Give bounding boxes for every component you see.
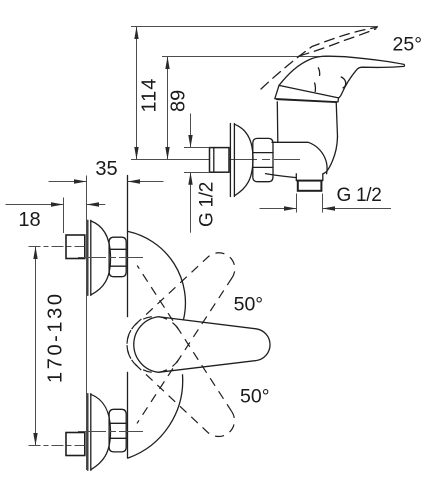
body edge line / 35 extension [127, 176, 129, 459]
top connection centerline [78, 257, 143, 259]
label 50 deg lower [240, 386, 270, 408]
outlet thread G1/2 [298, 181, 322, 191]
body silhouette lower arc front view [128, 375, 183, 458]
centerline wall connection side view [131, 159, 300, 161]
lever handle side view [279, 56, 404, 98]
handle solid teardrop front view [134, 317, 270, 373]
dashed handle position -50deg (lower) [116, 305, 251, 451]
label 114 [139, 78, 161, 113]
extension line top (tip of raised lever, y=26) [131, 26, 378, 28]
label 18 [18, 209, 40, 231]
faucet body side view [266, 102, 338, 178]
dashed raised lever upper silhouette [261, 27, 377, 89]
label 170-130 rotated [45, 291, 67, 383]
bottom hex nut front view [109, 409, 126, 452]
dashed handle position +50deg (upper) [116, 238, 251, 384]
hex nut side view [253, 138, 273, 181]
dimension 170-130 [33, 247, 37, 446]
dashed swing line of upper handle position [137, 278, 232, 424]
svg-text:18: 18 [18, 209, 40, 231]
svg-text:25°: 25° [393, 34, 423, 56]
bottom stub centerline [29, 445, 85, 447]
svg-text:114: 114 [139, 78, 161, 113]
top stub centerline [29, 246, 85, 248]
outlet collar [296, 174, 323, 181]
lever side bump [341, 77, 346, 88]
svg-text:170-130: 170-130 [45, 291, 67, 383]
outlet dimension G 1/2 [260, 194, 392, 213]
svg-text:89: 89 [167, 90, 189, 112]
extension line handle top (y=56) [162, 56, 329, 58]
top wall stub front view [66, 235, 85, 259]
wall plane line [86, 176, 88, 471]
top hex nut front view [109, 237, 126, 277]
svg-text:50°: 50° [234, 294, 264, 316]
G 1/2 wall thread dimension (side view) [184, 114, 210, 233]
bottom connection centerline [78, 431, 143, 433]
svg-text:G 1/2: G 1/2 [337, 185, 382, 206]
label 35 [95, 158, 117, 180]
dimension 89 line [165, 57, 169, 160]
svg-text:35: 35 [95, 158, 117, 180]
lever inner strokes (pivot marks) [315, 68, 320, 92]
label 89 [167, 90, 189, 112]
dimension 35 [49, 179, 164, 183]
body silhouette upper arc front view [128, 231, 186, 319]
escutcheon bell side view [230, 124, 253, 197]
dashed raised lever lower silhouette [299, 29, 376, 56]
bottom escutcheon bell front view [88, 394, 111, 471]
bottom wall stub front view [66, 433, 85, 456]
label G 1/2 rotated [197, 182, 218, 227]
wall pipe stub side view [210, 148, 230, 173]
dashed swing line of lower handle position [137, 266, 232, 412]
dimension 114 line [134, 27, 138, 160]
label 50 deg upper [234, 294, 264, 316]
label 25 deg [393, 34, 423, 56]
label G 1/2 horizontal [337, 185, 382, 206]
svg-text:50°: 50° [240, 386, 270, 408]
svg-text:G 1/2: G 1/2 [197, 182, 218, 227]
dimension 18 [6, 198, 106, 234]
top escutcheon bell front view [88, 220, 111, 295]
lever cartridge cap [275, 85, 339, 102]
